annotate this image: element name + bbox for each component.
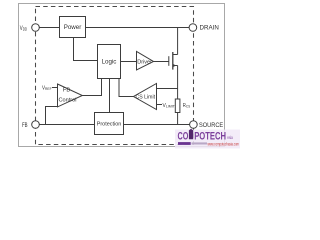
watermark small gray text: [192, 142, 208, 144]
pin VDD: [32, 24, 40, 32]
svg-text:Driver: Driver: [137, 59, 152, 65]
pin FB: [32, 121, 40, 129]
CS Limit comparator: [134, 84, 157, 110]
svg-text:Power: Power: [64, 24, 82, 31]
svg-text:Logic: Logic: [102, 58, 117, 65]
wire Driver to MOSFET gate: [154, 61, 169, 63]
wire FB-Control output to Logic bottom: [82, 79, 101, 96]
svg-text:DRAIN: DRAIN: [200, 25, 219, 32]
wire Vlimit stub: [157, 104, 163, 106]
wire Power bottom to Logic left: [74, 38, 98, 61]
MOSFET Q1 drain stub: [173, 54, 178, 56]
wire Rcs to bottom rail: [177, 113, 179, 125]
MOSFET Q1 gate bar: [168, 56, 170, 66]
svg-text:CO: CO: [178, 130, 189, 142]
svg-text:VLIMIT: VLIMIT: [163, 103, 176, 109]
Power block: [60, 17, 86, 38]
svg-text:VREF: VREF: [42, 85, 52, 91]
watermark CJK block: [178, 142, 191, 145]
MOSFET Q1 source arrow: [173, 64, 176, 67]
wire VDD pin to Power: [39, 27, 60, 29]
svg-text:Protection: Protection: [97, 122, 122, 128]
svg-text:Asia: Asia: [227, 135, 233, 140]
MOSFET Q1 channel bar: [172, 52, 174, 70]
figure frame: [19, 4, 225, 147]
wire Power to DRAIN pin (top rail): [86, 27, 190, 29]
wire FB branch to FB-Control lower input: [46, 107, 58, 125]
pin DRAIN: [189, 24, 197, 32]
wire CS-Limit output to Logic bottom: [119, 79, 134, 97]
pin SOURCE: [190, 121, 198, 129]
svg-text:Control: Control: [58, 98, 76, 104]
wire MOSFET drain to top rail: [177, 28, 179, 55]
watermark haze: [175, 130, 240, 149]
svg-text:FB: FB: [22, 122, 28, 129]
svg-text:VDD: VDD: [20, 25, 27, 32]
svg-text:FB: FB: [63, 88, 70, 94]
svg-text:CS Limit: CS Limit: [136, 95, 156, 101]
svg-text:www.compotechasia.com: www.compotechasia.com: [208, 141, 240, 146]
watermark M block: [189, 129, 193, 140]
MOSFET Q1 source stub: [173, 65, 178, 67]
IC boundary (dashed): [36, 7, 194, 145]
svg-text:RCS: RCS: [183, 103, 191, 109]
wire CS-Limit upper input to sense node: [157, 88, 178, 90]
wire Logic bottom to Protection top: [109, 79, 111, 113]
resistor RCS: [175, 99, 180, 113]
FB Control amplifier: [58, 84, 83, 107]
svg-text:SOURCE: SOURCE: [199, 122, 224, 129]
wire MOSFET source to Rcs: [177, 66, 179, 100]
Logic block: [98, 45, 121, 79]
wire FB pin to Protection left: [39, 124, 94, 126]
Driver buffer: [137, 51, 154, 70]
wire Protection right to SOURCE pin (bottom rail): [124, 124, 190, 126]
Protection block: [95, 113, 124, 135]
wire Logic to Driver: [121, 61, 137, 63]
wire Vref stub: [52, 87, 58, 89]
